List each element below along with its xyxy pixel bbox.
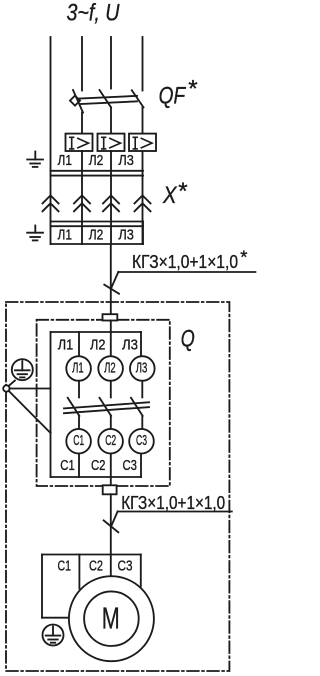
svg-text:С3: С3 — [123, 457, 138, 474]
motor circle outer — [69, 576, 154, 661]
wire C1 contact to circle — [78, 416, 80, 429]
svg-text:*: * — [177, 178, 187, 205]
contactor linkage bar lower — [64, 407, 149, 413]
svg-text:*: * — [240, 247, 247, 268]
cable label KG 3x1,0+1x1,0 bottom text — [121, 492, 225, 513]
wire L3 circle to contact — [141, 381, 143, 398]
svg-text:С1: С1 — [73, 432, 84, 449]
svg-text:С1: С1 — [58, 557, 72, 574]
earth circle at motor — [43, 625, 64, 646]
cable label bottom leader — [104, 512, 232, 533]
wire L1 incoming top — [81, 37, 83, 91]
circle labels L row — [72, 359, 147, 376]
svg-text:QF: QF — [159, 83, 187, 110]
contactor C row divider wires — [78, 453, 80, 477]
contactor contact blade 1 — [68, 398, 80, 416]
wire PE incoming top — [50, 37, 52, 171]
enclosure outer dash-dot box — [6, 302, 229, 671]
svg-text:Л3: Л3 — [122, 336, 138, 353]
svg-text:С2: С2 — [91, 457, 106, 474]
svg-text:КГЗ×1,0+1×1,0: КГЗ×1,0+1×1,0 — [121, 492, 225, 513]
terminal strip 2 outline — [51, 222, 144, 245]
starter inner dash-dot box — [37, 320, 170, 486]
connector upper double line 2 — [51, 175, 144, 177]
wire PE through connector — [50, 171, 52, 222]
cable starter to motor — [110, 494, 112, 554]
overcurrent release box pole 2 — [98, 134, 125, 151]
cable label KG 3x1,0+1x1,0* text — [132, 247, 248, 272]
wire L3 QF to release box — [142, 107, 144, 133]
svg-text:Л1: Л1 — [72, 359, 84, 376]
contactor linkage bar upper — [64, 402, 149, 408]
terminal labels row 1 — [58, 152, 134, 169]
svg-text:*: * — [187, 76, 197, 103]
svg-text:3~f, U: 3~f, U — [67, 0, 121, 27]
contactor terminal circle L1 — [66, 356, 91, 381]
PE wire node to contactor box — [10, 388, 51, 390]
wire L1 circle to contact — [78, 381, 80, 398]
svg-text:Q: Q — [181, 326, 195, 353]
circuit breaker QF linkage bar lower — [80, 101, 137, 104]
motor letter M — [102, 601, 120, 636]
svg-text:Л3: Л3 — [136, 359, 148, 376]
svg-text:Л2: Л2 — [90, 336, 106, 353]
PE node on enclosure — [3, 385, 9, 391]
label QF* — [159, 76, 198, 110]
earth connection to node — [7, 381, 15, 388]
svg-text:Л2: Л2 — [104, 359, 116, 376]
connector upper double line 1 — [51, 170, 144, 172]
circuit breaker QF linkage bar upper — [80, 96, 138, 99]
ground symbol at terminal row 1 — [27, 152, 43, 167]
contactor terminal labels L row — [58, 336, 138, 353]
wire L3 arrows to strip 2 — [142, 196, 144, 245]
label I> pole 3 — [133, 137, 152, 149]
label supply 3~f, U — [67, 0, 121, 27]
svg-text:Л1: Л1 — [58, 152, 73, 169]
wire L2 circle to contact — [110, 381, 112, 398]
ground symbol at terminal strip 2 — [27, 226, 43, 241]
overcurrent release box pole 1 — [66, 134, 93, 151]
contactor terminal circle C2 — [98, 429, 123, 454]
cable gland top to contactor box — [110, 321, 112, 333]
contactor terminal circle C1 — [66, 429, 91, 454]
label X* — [162, 178, 187, 209]
svg-text:Л3: Л3 — [118, 152, 133, 169]
wire L2 arrows to strip 2 — [110, 196, 112, 245]
svg-text:С3: С3 — [118, 557, 133, 574]
contactor contact blade 2 — [100, 398, 112, 416]
contactor terminal circle L2 — [98, 356, 123, 381]
label I> pole 1 — [70, 137, 89, 149]
motor circle inner — [84, 591, 139, 646]
circuit breaker QF pole 1 blade — [73, 90, 83, 113]
contactor contact blade 3 — [131, 398, 143, 416]
wire L3 through terminal row 1 — [142, 151, 144, 196]
circuit breaker QF pole 2 blade — [100, 90, 112, 107]
PE wire node to outgoing — [9, 391, 51, 433]
earth circle of starter panel — [12, 359, 33, 380]
contactor terminal circle C3 — [129, 429, 154, 454]
motor terminal labels — [58, 557, 133, 574]
svg-text:Л1: Л1 — [58, 227, 73, 244]
svg-text:С1: С1 — [60, 457, 75, 474]
svg-text:X: X — [162, 182, 177, 209]
terminal labels strip 2 — [58, 227, 134, 244]
connector X arrows PE — [43, 195, 59, 211]
cable gland bottom — [110, 477, 112, 485]
svg-text:М: М — [102, 601, 120, 636]
svg-text:Л2: Л2 — [89, 152, 104, 169]
wire L2 through terminal row 1 — [110, 151, 112, 196]
svg-text:С3: С3 — [136, 432, 147, 449]
wire L1 QF to release box — [81, 113, 83, 134]
connector X arrows L2 — [103, 195, 119, 211]
label I> pole 2 — [102, 137, 121, 149]
overcurrent release box pole 3 — [129, 134, 156, 151]
wire L2 QF to release box — [110, 107, 112, 133]
wire L3 incoming top — [142, 37, 144, 91]
wire L1 arrows to strip 2 — [81, 196, 83, 245]
wire L1 through terminal row 1 — [81, 151, 83, 196]
svg-text:С2: С2 — [89, 557, 103, 574]
svg-text:С2: С2 — [105, 432, 116, 449]
cable from strip 2 to starter box — [110, 244, 112, 314]
svg-text:Л3: Л3 — [118, 227, 133, 244]
wire C3 contact to circle — [141, 416, 143, 429]
svg-text:Л1: Л1 — [58, 336, 73, 353]
contactor box outline — [51, 332, 142, 477]
svg-text:КГЗ×1,0+1×1,0: КГЗ×1,0+1×1,0 — [132, 251, 238, 272]
cable gland top — [103, 314, 118, 320]
contactor L row divider wires — [78, 332, 80, 356]
wire C2 contact to circle — [110, 416, 112, 429]
wire L2 incoming top — [110, 37, 112, 89]
svg-text:Л2: Л2 — [89, 227, 104, 244]
connector X arrows L1 — [74, 195, 90, 211]
circuit breaker QF latch diamond — [70, 96, 80, 106]
connector X arrows L3 — [135, 195, 151, 211]
contactor terminal circle L3 — [130, 356, 155, 381]
label Q — [181, 326, 195, 353]
circuit breaker QF pole 3 blade — [132, 90, 144, 107]
contactor terminal labels C row — [60, 457, 137, 474]
circle labels C row — [73, 432, 147, 449]
cable label KG 3x1,0+1x1,0* leader — [104, 272, 255, 294]
motor terminal box — [42, 555, 141, 618]
